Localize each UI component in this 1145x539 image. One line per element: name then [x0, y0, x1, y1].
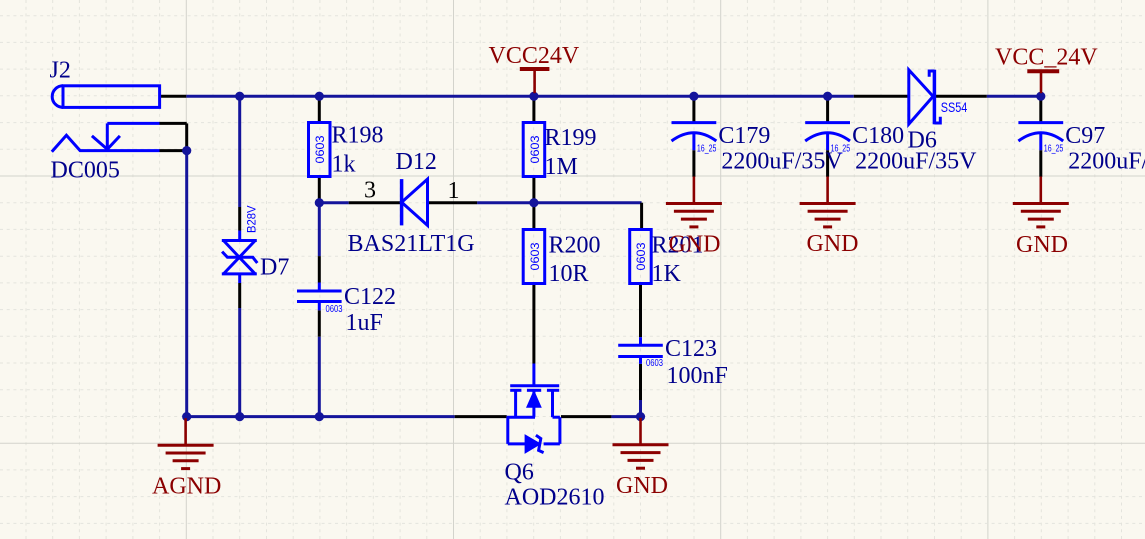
C179 pin top	[692, 96, 695, 122]
svg-text:0603: 0603	[646, 358, 663, 369]
svg-text:0603: 0603	[313, 135, 327, 163]
resistor R199 body	[523, 123, 545, 177]
junction node 4	[689, 92, 698, 101]
D7 pin top	[238, 207, 241, 231]
svg-text:2200uF/35V: 2200uF/35V	[1068, 149, 1145, 175]
svg-text:1K: 1K	[652, 261, 682, 287]
svg-text:GND: GND	[616, 473, 668, 499]
junction node 12	[315, 412, 324, 421]
svg-text:100nF: 100nF	[667, 363, 728, 389]
C180 pin bottom	[826, 150, 829, 177]
junction node 2	[315, 92, 324, 101]
ground symbol GND at Q6 drain	[613, 418, 669, 468]
transistor Q6 AOD2610 MOSFET	[507, 364, 560, 453]
wire node A to D12 anode row	[319, 201, 348, 204]
svg-text:R198: R198	[332, 123, 384, 149]
R199 pin bottom	[532, 177, 535, 203]
connector J2 barrel	[52, 86, 159, 108]
svg-text:VCC24V: VCC24V	[489, 43, 580, 69]
C97 pin top	[1039, 96, 1042, 122]
Q6 drain pin	[561, 415, 611, 418]
R200 pin top	[532, 203, 535, 230]
svg-text:R200: R200	[549, 232, 601, 258]
junction node 7	[182, 146, 191, 155]
diode D6 SS54	[909, 70, 941, 125]
C180 pin top	[826, 96, 829, 122]
capacitor C180	[805, 123, 850, 151]
wire bus down to D7	[238, 96, 241, 207]
junction node 6	[1036, 92, 1045, 101]
wire D12 pin1 to node B	[477, 201, 534, 204]
TVS diode D7	[222, 231, 257, 284]
svg-text:B28V: B28V	[245, 206, 259, 234]
R200 pin bottom to Q6 gate	[532, 284, 535, 364]
svg-text:C180: C180	[852, 123, 904, 149]
svg-text:16_25: 16_25	[831, 144, 851, 155]
svg-text:AOD2610: AOD2610	[505, 484, 605, 510]
svg-text:0603: 0603	[528, 242, 542, 270]
svg-text:1uF: 1uF	[346, 310, 383, 336]
svg-text:D7: D7	[260, 255, 289, 281]
junction node 1	[235, 92, 244, 101]
power symbol VCC24V	[520, 69, 550, 93]
svg-text:10R: 10R	[549, 261, 589, 287]
ground symbol AGND	[158, 418, 214, 468]
svg-text:1k: 1k	[332, 152, 356, 178]
svg-text:3: 3	[364, 178, 376, 204]
svg-text:Q6: Q6	[505, 460, 534, 486]
junction node 11	[235, 412, 244, 421]
C179 pin bottom	[692, 150, 695, 177]
svg-text:0603: 0603	[326, 304, 343, 315]
capacitor C122	[297, 283, 342, 311]
C122 pin top	[318, 256, 321, 282]
ground symbol GND under C179	[666, 177, 722, 227]
wire bottom rail left	[186, 415, 454, 418]
ground symbol GND under C97	[1013, 177, 1069, 227]
wire node B to R201 branch	[534, 201, 642, 204]
D12 pin 1 wire	[429, 201, 477, 204]
D12 pin 3 wire	[349, 201, 400, 204]
junction node 13	[636, 412, 645, 421]
J2 pin	[160, 95, 187, 98]
junction node 10	[182, 412, 191, 421]
R198 pin bottom	[318, 177, 321, 203]
diode D12 BAS21LT1G	[402, 179, 428, 225]
resistor R200 body	[523, 230, 545, 284]
resistor R201 body	[630, 230, 652, 284]
wire DC005 pin3 node down to bottom rail	[185, 151, 188, 417]
svg-text:C123: C123	[665, 336, 717, 362]
svg-text:0603: 0603	[528, 135, 542, 163]
wire C123 to GND node	[639, 400, 642, 417]
junction node 3	[529, 92, 538, 101]
svg-text:R199: R199	[545, 125, 597, 151]
svg-text:DC005: DC005	[51, 158, 120, 184]
connector J2 switch prong DC005	[52, 123, 160, 151]
svg-text:C97: C97	[1065, 123, 1105, 149]
wire C122 down to bottom rail	[318, 337, 321, 417]
DC005 pin 3	[160, 149, 187, 152]
R201 pin bottom	[639, 284, 642, 338]
svg-text:VCC_24V: VCC_24V	[995, 44, 1098, 70]
svg-text:GND: GND	[1016, 232, 1068, 258]
svg-text:D6: D6	[908, 127, 937, 153]
wire main bus right of D6 to VCC_24V node	[987, 95, 1041, 98]
C122 pin bottom	[318, 310, 321, 336]
svg-text:J2: J2	[50, 57, 71, 83]
svg-text:GND: GND	[669, 232, 721, 258]
power symbol VCC_24V	[1027, 71, 1059, 93]
junction node 5	[823, 92, 832, 101]
R198 pin top	[318, 96, 321, 122]
D6 anode pin	[854, 95, 909, 98]
C97 pin bottom	[1039, 150, 1042, 177]
wire D7 down to bottom rail	[238, 308, 241, 417]
resistor R198 body	[309, 123, 331, 177]
svg-text:1M: 1M	[545, 154, 578, 180]
junction node 8	[315, 198, 324, 207]
D6 cathode pin	[935, 95, 987, 98]
D7 pin bottom	[238, 283, 241, 308]
svg-text:BAS21LT1G: BAS21LT1G	[348, 231, 475, 257]
svg-text:2200uF/35V: 2200uF/35V	[721, 149, 843, 175]
capacitor C97	[1018, 123, 1063, 151]
Q6 source pin	[455, 415, 507, 418]
svg-text:C122: C122	[344, 284, 396, 310]
DC005 pin 2 horizontal	[160, 122, 187, 125]
svg-text:C179: C179	[718, 123, 770, 149]
capacitor C179	[672, 123, 717, 151]
R199 pin top	[532, 96, 535, 122]
junction node 9	[529, 198, 538, 207]
wire main bus left of D6	[186, 95, 854, 98]
svg-text:SS54: SS54	[941, 99, 968, 115]
C123 pin bottom	[639, 364, 642, 400]
DC005 pin 2 vertical	[185, 123, 188, 149]
R201 pin top	[640, 203, 643, 230]
wire node A down to C122	[318, 203, 321, 256]
svg-text:GND: GND	[807, 231, 859, 257]
capacitor C123	[618, 337, 663, 364]
svg-text:16_25: 16_25	[1044, 144, 1064, 155]
svg-text:16_25: 16_25	[697, 144, 717, 155]
ground symbol GND under C180	[800, 177, 856, 227]
svg-text:D12: D12	[396, 149, 437, 175]
wire bottom rail right of Q6	[611, 415, 640, 418]
svg-text:AGND: AGND	[152, 473, 221, 499]
svg-text:0603: 0603	[634, 242, 648, 270]
svg-text:1: 1	[448, 178, 460, 204]
